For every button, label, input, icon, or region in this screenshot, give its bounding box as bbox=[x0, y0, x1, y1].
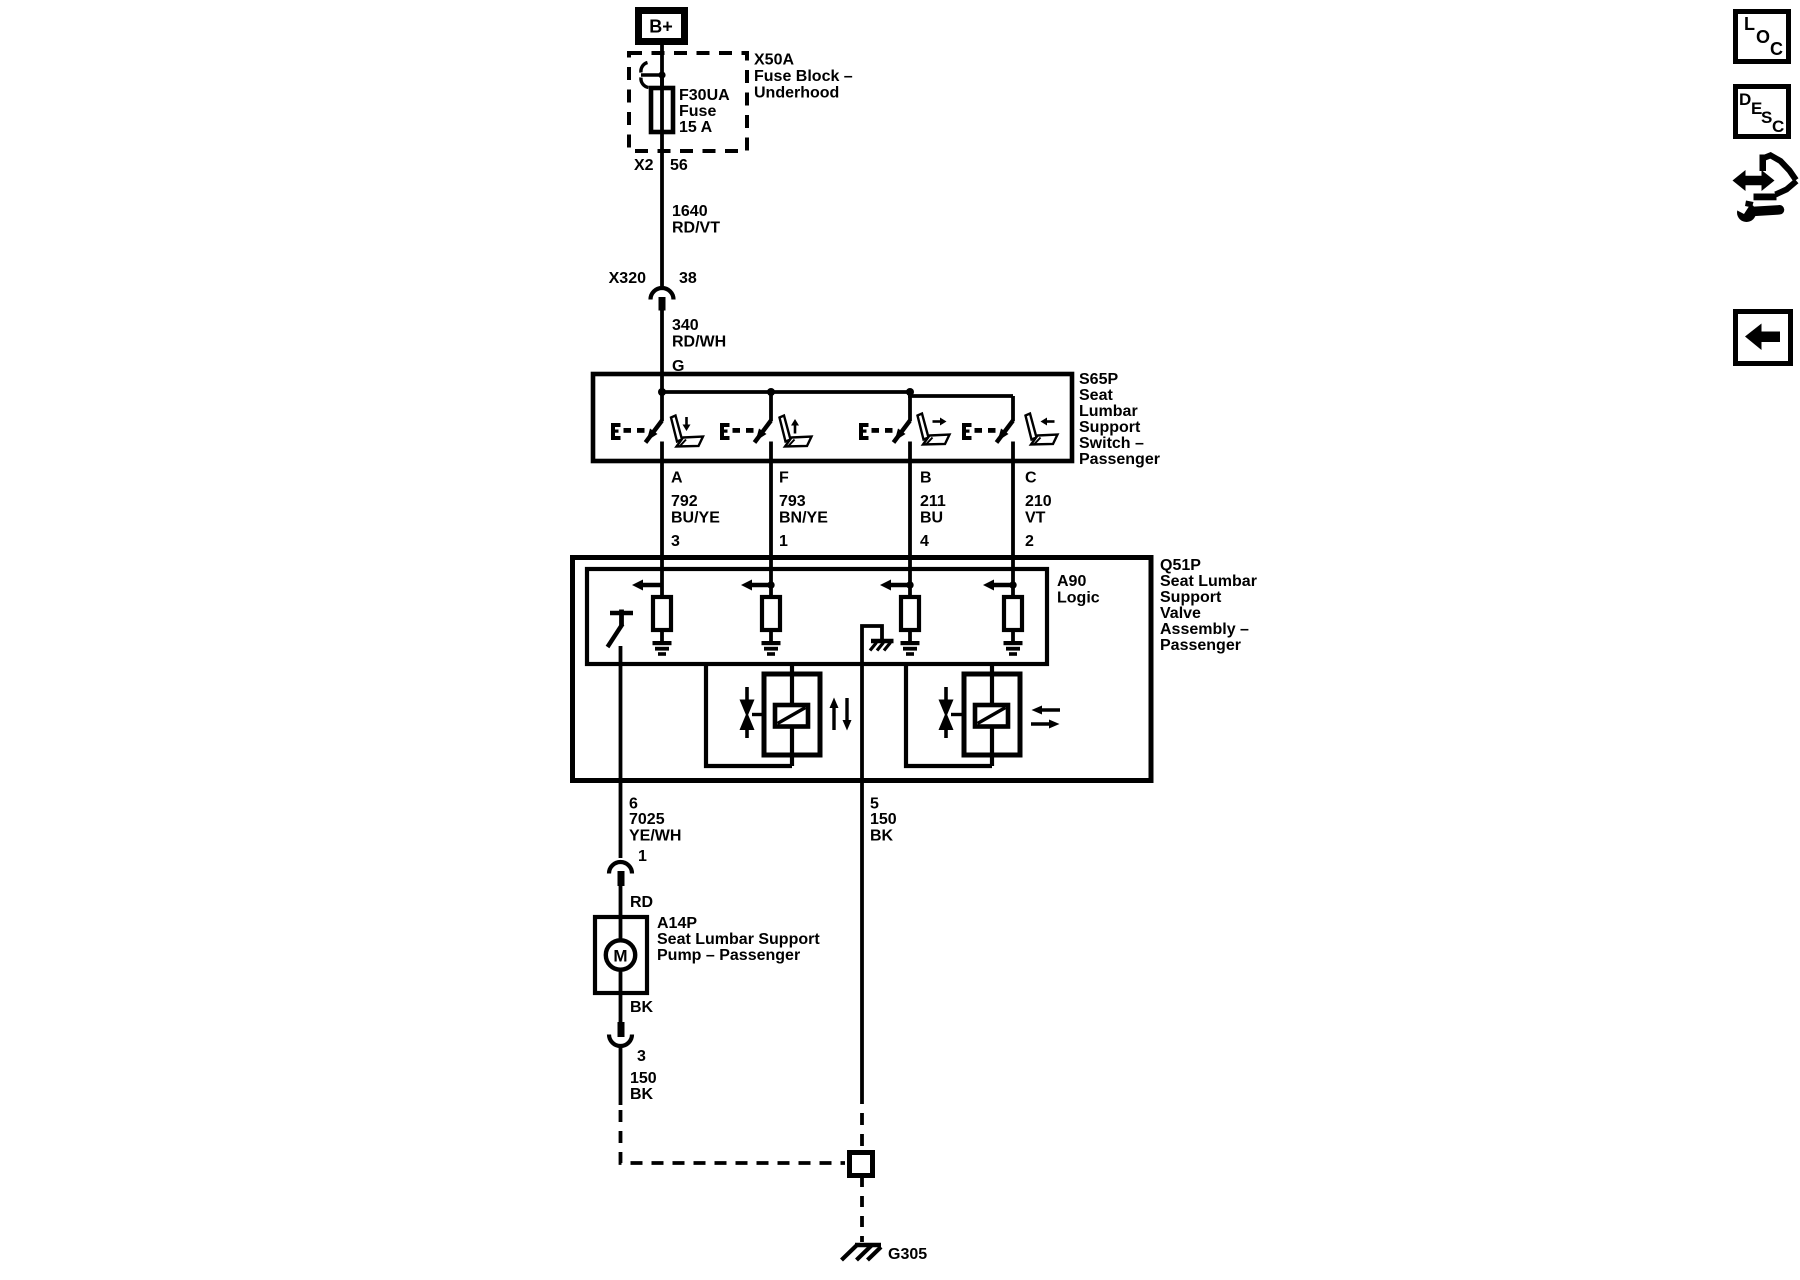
LOC navigation button bbox=[1736, 12, 1789, 62]
svg-text:X320: X320 bbox=[609, 270, 646, 287]
wire pump to connector 3 bbox=[619, 993, 623, 1023]
junction node dots bbox=[658, 388, 666, 396]
switch 1 seat icon bbox=[671, 416, 703, 448]
svg-text:G305: G305 bbox=[888, 1246, 927, 1263]
svg-text:S: S bbox=[1761, 108, 1772, 127]
svg-text:F30UAFuse15 A: F30UAFuse15 A bbox=[679, 87, 730, 136]
dashed wire splice to ground bbox=[860, 1176, 864, 1242]
svg-text:S65PSeatLumbarSupportSwitch –P: S65PSeatLumbarSupportSwitch –Passenger bbox=[1079, 371, 1160, 468]
logic input arrow pin 2 bbox=[983, 580, 1017, 591]
ground symbol channel A bbox=[653, 641, 672, 656]
wire switch B to valve pin 4 bbox=[908, 442, 912, 598]
valve 2 wires bbox=[906, 664, 992, 766]
resistor channel F bbox=[762, 597, 780, 630]
svg-text:A90Logic: A90Logic bbox=[1057, 573, 1100, 607]
svg-text:A: A bbox=[671, 470, 683, 487]
svg-text:M: M bbox=[613, 947, 627, 966]
resistor channel A bbox=[653, 597, 671, 630]
svg-text:340RD/WH: 340RD/WH bbox=[672, 317, 726, 351]
resistor channel C bbox=[1004, 597, 1022, 630]
dashed wire to splice bbox=[860, 1092, 864, 1152]
dashed ground wire from pump bbox=[621, 1105, 846, 1163]
ground symbol channel B bbox=[901, 641, 920, 656]
wire pin 6 to pump connector bbox=[619, 781, 623, 858]
wire through fuse bbox=[660, 75, 664, 286]
svg-text:793BN/YE: 793BN/YE bbox=[779, 493, 828, 527]
splice junction S-box bbox=[850, 1153, 873, 1176]
svg-text:211BU: 211BU bbox=[920, 493, 946, 527]
logic input arrow pin 3 bbox=[632, 580, 662, 591]
valve 1 body bbox=[764, 674, 820, 755]
svg-text:6: 6 bbox=[629, 796, 638, 813]
svg-text:F: F bbox=[779, 470, 789, 487]
valve 2 check valve symbol bbox=[939, 687, 965, 738]
wire lever to pin 6 bbox=[619, 646, 623, 781]
wire resistor to ground C bbox=[1011, 630, 1015, 642]
wire 150 BK below pump bbox=[619, 1048, 623, 1105]
DESC navigation button bbox=[1736, 87, 1789, 137]
internal chassis ground link bbox=[862, 626, 894, 781]
wire resistor to ground B bbox=[908, 630, 912, 642]
switch 1 lumbar down bbox=[611, 421, 662, 443]
in-line connector pump pin 1 bbox=[609, 848, 647, 886]
svg-text:1: 1 bbox=[779, 533, 788, 550]
svg-text:150BK: 150BK bbox=[870, 811, 897, 845]
svg-text:7025YE/WH: 7025YE/WH bbox=[629, 811, 681, 845]
logic module A90 box bbox=[587, 569, 1047, 664]
svg-text:B: B bbox=[920, 470, 932, 487]
valve assembly Q51P box bbox=[573, 558, 1152, 781]
in-line connector pump pin 3 bbox=[609, 1022, 646, 1065]
svg-text:5: 5 bbox=[870, 796, 879, 813]
svg-text:1: 1 bbox=[638, 848, 647, 865]
svg-text:RD: RD bbox=[630, 894, 653, 911]
svg-text:56: 56 bbox=[670, 157, 688, 174]
valve 1 check valve symbol bbox=[740, 687, 765, 738]
switch 4 lumbar rearward bbox=[962, 421, 1013, 443]
switch 2 seat icon bbox=[780, 416, 812, 448]
pump motor M bbox=[606, 917, 635, 993]
fuse F30UA 15 A bbox=[651, 88, 673, 132]
svg-text:O: O bbox=[1756, 27, 1770, 47]
resistor channel B bbox=[901, 597, 919, 630]
diagnostic shortcut icon bbox=[1733, 155, 1797, 223]
switch box S65P bbox=[593, 374, 1072, 461]
in-line connector X320 pin 38 bbox=[609, 270, 697, 311]
svg-text:2: 2 bbox=[1025, 533, 1034, 550]
svg-text:Q51PSeat LumbarSupportValveAss: Q51PSeat LumbarSupportValveAssembly –Pas… bbox=[1160, 557, 1257, 654]
svg-text:L: L bbox=[1744, 14, 1755, 34]
fuse clip terminal bbox=[641, 63, 666, 88]
switch 3 seat icon bbox=[918, 414, 950, 446]
pump A14P box bbox=[595, 917, 647, 993]
svg-text:3: 3 bbox=[637, 1048, 646, 1065]
valve 1 wires bbox=[706, 664, 792, 766]
logic input arrow pin 1 bbox=[741, 580, 775, 591]
svg-text:792BU/YE: 792BU/YE bbox=[671, 493, 720, 527]
valve 1 solenoid coil bbox=[775, 705, 808, 727]
svg-text:BK: BK bbox=[630, 999, 654, 1016]
wire 340 RD/WH bbox=[660, 310, 664, 376]
switch 4 seat icon bbox=[1026, 414, 1058, 446]
ground symbol channel F bbox=[762, 641, 781, 656]
svg-text:210VT: 210VT bbox=[1025, 493, 1052, 527]
svg-text:4: 4 bbox=[920, 533, 929, 550]
svg-text:38: 38 bbox=[679, 270, 697, 287]
svg-text:X50AFuse Block –Underhood: X50AFuse Block –Underhood bbox=[754, 52, 853, 102]
svg-text:X2: X2 bbox=[634, 157, 654, 174]
svg-text:A14PSeat Lumbar SupportPump –: A14PSeat Lumbar SupportPump – Passenger bbox=[657, 915, 820, 964]
back navigation button bbox=[1736, 312, 1791, 364]
logic input arrow pin 4 bbox=[880, 580, 914, 591]
battery positive voltage B+ bbox=[639, 11, 685, 42]
svg-text:150BK: 150BK bbox=[630, 1070, 657, 1103]
wire resistor to ground A bbox=[660, 630, 664, 642]
svg-text:C: C bbox=[1772, 117, 1784, 136]
ground symbol channel C bbox=[1004, 641, 1023, 656]
valve 2 body bbox=[964, 674, 1020, 755]
wire RD to pump bbox=[619, 886, 623, 917]
wire switch C to valve pin 2 bbox=[1011, 442, 1015, 598]
svg-text:C: C bbox=[1770, 39, 1783, 59]
svg-text:B+: B+ bbox=[649, 17, 673, 37]
wire B+ to fuse block bbox=[660, 44, 664, 88]
wire pin 5 ground bbox=[860, 781, 864, 1092]
valve 1 motion arrows up down bbox=[830, 698, 852, 731]
wire switch A to valve pin 3 bbox=[660, 442, 664, 598]
svg-text:D: D bbox=[1739, 90, 1751, 109]
valve 2 motion arrows left right bbox=[1031, 706, 1060, 729]
svg-text:3: 3 bbox=[671, 533, 680, 550]
pump driver lever symbol bbox=[608, 610, 634, 648]
internal bus wire bbox=[660, 374, 1013, 421]
fuse block X50A dashed outline bbox=[629, 53, 747, 151]
wire switch F to valve pin 1 bbox=[769, 442, 773, 598]
valve 2 solenoid coil bbox=[975, 705, 1008, 727]
ground G305 bbox=[842, 1245, 928, 1264]
svg-text:C: C bbox=[1025, 470, 1037, 487]
switch 2 lumbar up bbox=[720, 421, 771, 443]
switch 3 lumbar forward bbox=[859, 421, 910, 443]
wire resistor to ground F bbox=[769, 630, 773, 642]
svg-text:1640RD/VT: 1640RD/VT bbox=[672, 203, 720, 237]
